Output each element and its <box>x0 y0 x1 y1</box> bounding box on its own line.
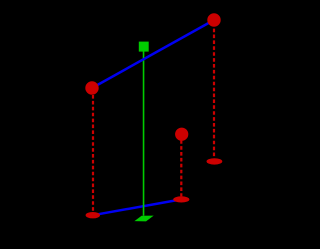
node P2': ground projection ellipse <box>207 158 223 164</box>
wire: blue segment P1-P2 (air) <box>92 20 214 88</box>
wire: red dashed drop line from P1 <box>92 95 94 212</box>
green square marker <box>139 42 149 52</box>
node P3: red point marker <box>175 128 188 141</box>
node P3': ground projection ellipse <box>173 196 189 202</box>
wire: blue segment P1'-P3' (ground) <box>93 199 182 215</box>
node P1': ground projection ellipse <box>86 212 100 218</box>
wire: red dashed drop line from P2 <box>213 29 215 159</box>
green pole <box>143 52 145 216</box>
wire: red dashed drop line from P3 <box>180 140 182 196</box>
green ground parallelogram <box>134 216 153 222</box>
node P1: red point marker <box>85 81 98 94</box>
node P2: red point marker <box>207 13 220 26</box>
